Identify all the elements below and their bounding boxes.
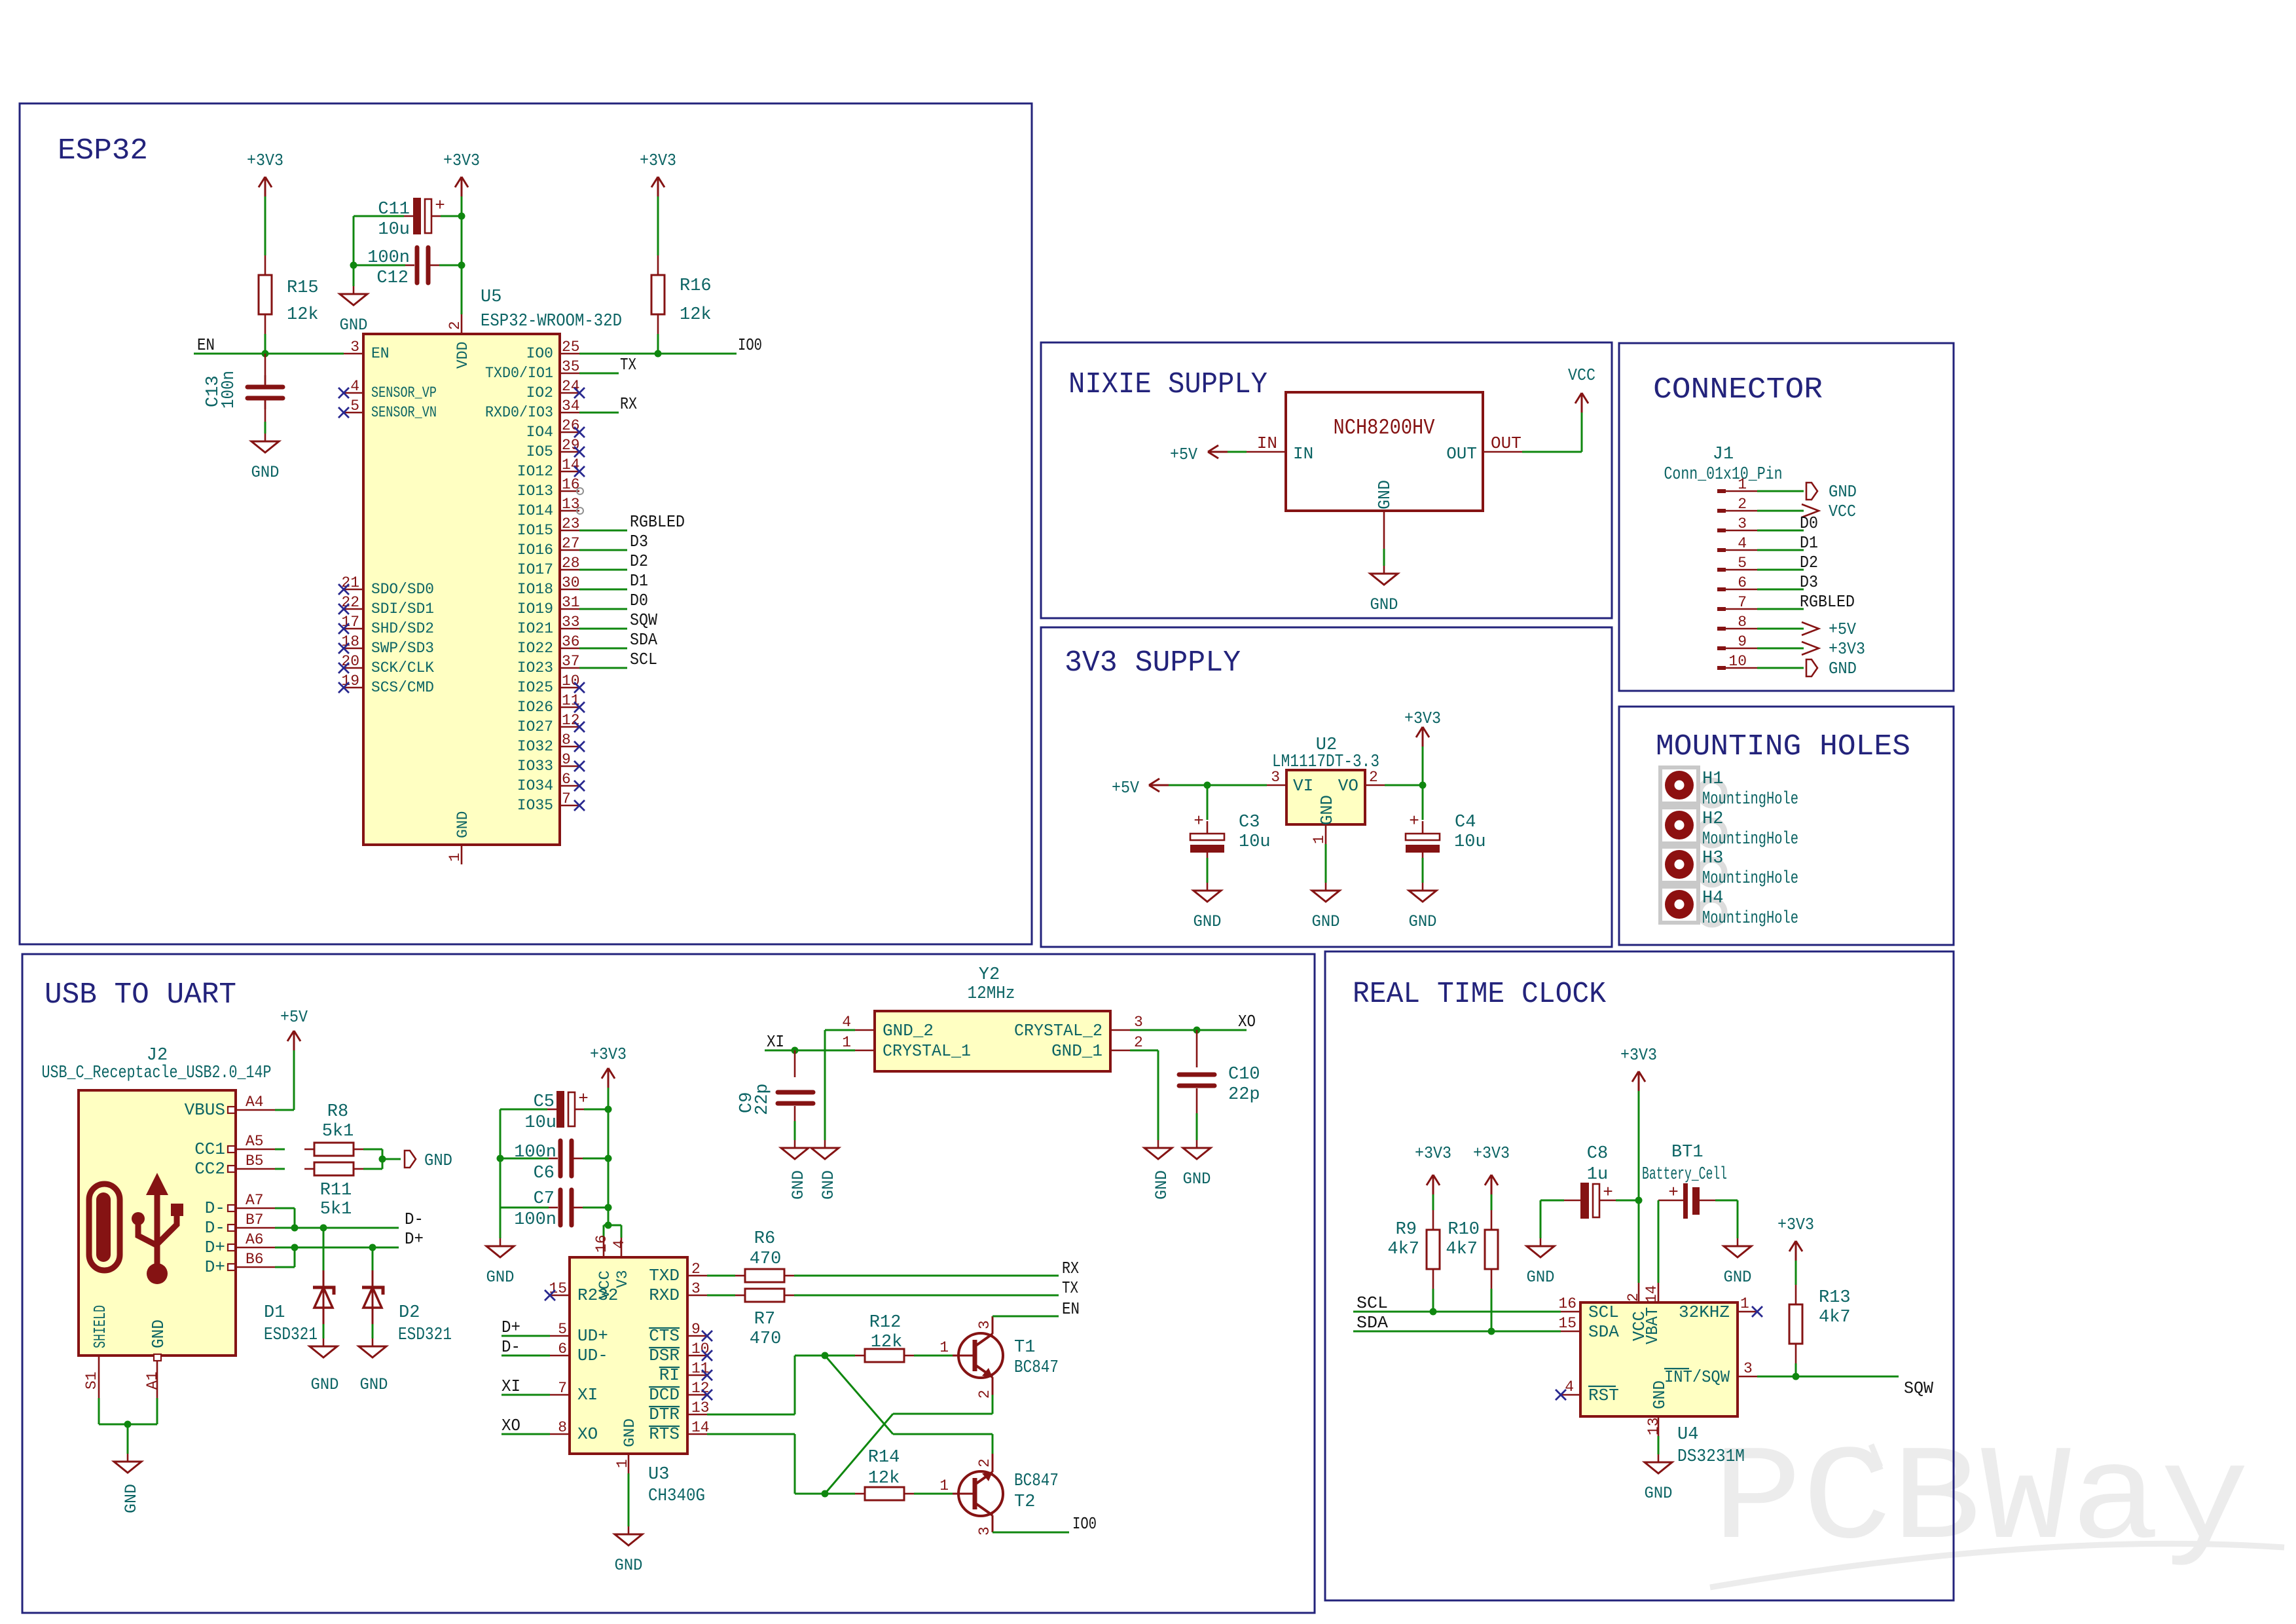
svg-text:5: 5 xyxy=(558,1321,567,1338)
svg-text:9: 9 xyxy=(1738,633,1747,650)
svg-text:CONNECTOR: CONNECTOR xyxy=(1653,373,1823,407)
svg-text:22p: 22p xyxy=(753,1083,773,1115)
svg-text:25: 25 xyxy=(562,339,580,356)
svg-text:31: 31 xyxy=(562,594,580,611)
svg-text:GND: GND xyxy=(1370,595,1398,614)
svg-text:2: 2 xyxy=(976,1458,993,1467)
svg-text:H1: H1 xyxy=(1702,769,1723,789)
svg-text:R9: R9 xyxy=(1396,1220,1417,1240)
svg-text:36: 36 xyxy=(562,633,580,650)
svg-text:SCK/CLK: SCK/CLK xyxy=(371,659,434,676)
svg-text:C7: C7 xyxy=(534,1189,555,1209)
svg-text:C6: C6 xyxy=(534,1164,555,1183)
svg-text:MountingHole: MountingHole xyxy=(1702,830,1798,849)
svg-text:INT/SQW: INT/SQW xyxy=(1664,1367,1730,1387)
svg-text:EN: EN xyxy=(371,345,390,362)
svg-text:T2: T2 xyxy=(1014,1492,1035,1512)
svg-text:+: + xyxy=(1194,811,1204,831)
svg-text:+3V3: +3V3 xyxy=(1404,709,1441,728)
svg-text:IO35: IO35 xyxy=(517,797,553,814)
svg-text:LM1117DT-3.3: LM1117DT-3.3 xyxy=(1272,752,1379,772)
svg-text:R16: R16 xyxy=(680,276,712,296)
svg-text:GND: GND xyxy=(615,1556,643,1575)
svg-text:D0: D0 xyxy=(1800,513,1818,533)
svg-text:VCC: VCC xyxy=(1568,365,1595,385)
svg-text:D-: D- xyxy=(205,1198,225,1218)
svg-text:GND: GND xyxy=(1152,1170,1171,1200)
svg-text:100n: 100n xyxy=(514,1143,556,1162)
svg-text:IO0: IO0 xyxy=(738,335,762,355)
svg-text:2: 2 xyxy=(1369,769,1378,786)
svg-text:DCD: DCD xyxy=(649,1385,680,1405)
svg-text:IO12: IO12 xyxy=(517,463,553,480)
svg-text:ESD321: ESD321 xyxy=(398,1325,452,1345)
svg-text:D-: D- xyxy=(405,1209,424,1229)
svg-text:H2: H2 xyxy=(1702,809,1723,829)
svg-text:10: 10 xyxy=(1728,653,1747,670)
svg-text:VDD: VDD xyxy=(454,342,471,369)
svg-text:XI: XI xyxy=(501,1376,520,1396)
svg-text:+5V: +5V xyxy=(1829,619,1856,639)
svg-text:22p: 22p xyxy=(1228,1085,1260,1105)
svg-text:R11: R11 xyxy=(320,1181,352,1200)
svg-text:IO33: IO33 xyxy=(517,758,553,775)
svg-text:SCL: SCL xyxy=(1588,1302,1619,1322)
svg-text:13: 13 xyxy=(691,1399,710,1416)
svg-text:27: 27 xyxy=(562,535,580,552)
svg-text:6: 6 xyxy=(1738,574,1747,591)
svg-text:RXD0/IO3: RXD0/IO3 xyxy=(485,404,553,421)
svg-text:D+: D+ xyxy=(501,1318,520,1337)
svg-text:3: 3 xyxy=(1271,769,1280,786)
svg-text:ESP32: ESP32 xyxy=(58,134,148,168)
svg-text:D+: D+ xyxy=(405,1229,424,1249)
svg-text:4k7: 4k7 xyxy=(1446,1240,1478,1259)
svg-text:+3V3: +3V3 xyxy=(247,151,283,170)
svg-text:+5V: +5V xyxy=(280,1007,308,1027)
svg-text:+3V3: +3V3 xyxy=(1777,1215,1814,1234)
svg-text:RX: RX xyxy=(620,394,637,414)
svg-text:+3V3: +3V3 xyxy=(1415,1143,1451,1163)
svg-text:VCC: VCC xyxy=(1829,502,1856,521)
svg-text:OUT: OUT xyxy=(1446,444,1477,464)
svg-text:CC1: CC1 xyxy=(194,1139,225,1159)
svg-text:J2: J2 xyxy=(147,1046,168,1065)
svg-text:SHIELD: SHIELD xyxy=(90,1305,110,1348)
svg-text:+: + xyxy=(578,1089,589,1109)
svg-text:UD-: UD- xyxy=(577,1346,608,1365)
svg-text:2: 2 xyxy=(1134,1034,1143,1051)
svg-text:7: 7 xyxy=(1738,594,1747,611)
svg-text:4k7: 4k7 xyxy=(1387,1240,1419,1259)
svg-text:R7: R7 xyxy=(754,1310,775,1329)
svg-text:13: 13 xyxy=(1645,1417,1662,1435)
svg-text:34: 34 xyxy=(562,397,580,415)
svg-text:470: 470 xyxy=(750,1329,782,1349)
svg-text:D1: D1 xyxy=(630,571,648,591)
svg-text:GND: GND xyxy=(1312,912,1340,931)
svg-text:IO16: IO16 xyxy=(517,542,553,559)
svg-text:RI: RI xyxy=(659,1365,680,1385)
svg-text:2: 2 xyxy=(1738,496,1747,513)
svg-text:16: 16 xyxy=(1558,1295,1576,1312)
svg-text:D1: D1 xyxy=(264,1303,285,1323)
svg-text:D3: D3 xyxy=(630,532,648,551)
svg-text:+5V: +5V xyxy=(1112,778,1139,798)
svg-text:24: 24 xyxy=(562,378,580,395)
svg-text:MountingHole: MountingHole xyxy=(1702,909,1798,929)
svg-text:C10: C10 xyxy=(1228,1065,1260,1084)
svg-text:6: 6 xyxy=(558,1340,567,1357)
svg-text:12k: 12k xyxy=(287,305,319,325)
svg-text:MountingHole: MountingHole xyxy=(1702,869,1798,889)
svg-text:D0: D0 xyxy=(630,591,648,610)
svg-text:SQW: SQW xyxy=(630,610,657,630)
svg-text:4k7: 4k7 xyxy=(1819,1308,1851,1327)
svg-text:D2: D2 xyxy=(630,551,648,571)
svg-text:GND: GND xyxy=(621,1418,638,1447)
svg-text:2: 2 xyxy=(446,321,464,330)
svg-text:10u: 10u xyxy=(1454,832,1486,852)
svg-text:CH340G: CH340G xyxy=(648,1486,705,1506)
svg-text:8: 8 xyxy=(1738,614,1747,631)
svg-text:IO25: IO25 xyxy=(517,679,553,696)
svg-text:1: 1 xyxy=(1740,1295,1749,1312)
svg-text:9: 9 xyxy=(691,1321,701,1338)
svg-text:IO4: IO4 xyxy=(526,424,553,441)
svg-text:2: 2 xyxy=(1625,1293,1642,1302)
svg-text:470: 470 xyxy=(750,1249,782,1269)
svg-text:TXD: TXD xyxy=(649,1266,680,1285)
svg-text:D-: D- xyxy=(501,1337,520,1357)
svg-text:SENSOR_VP: SENSOR_VP xyxy=(371,384,437,401)
svg-text:14: 14 xyxy=(562,456,580,473)
svg-text:U5: U5 xyxy=(481,287,501,307)
svg-text:RGBLED: RGBLED xyxy=(630,512,685,532)
svg-text:12k: 12k xyxy=(680,305,712,325)
svg-text:4: 4 xyxy=(350,378,359,395)
svg-text:DTR: DTR xyxy=(649,1405,680,1424)
svg-text:1: 1 xyxy=(1738,476,1747,493)
svg-text:VO: VO xyxy=(1338,776,1358,796)
svg-text:3: 3 xyxy=(976,1320,993,1329)
svg-text:GND: GND xyxy=(149,1319,168,1348)
svg-text:14: 14 xyxy=(1643,1285,1660,1303)
svg-text:2: 2 xyxy=(976,1390,993,1399)
svg-text:3V3 SUPPLY: 3V3 SUPPLY xyxy=(1065,646,1241,680)
svg-text:GND: GND xyxy=(486,1268,515,1287)
svg-text:IO23: IO23 xyxy=(517,659,553,676)
svg-text:IO17: IO17 xyxy=(517,561,553,578)
svg-text:SENSOR_VN: SENSOR_VN xyxy=(371,404,437,421)
svg-text:R6: R6 xyxy=(754,1229,775,1249)
svg-text:XO: XO xyxy=(1238,1012,1256,1031)
svg-text:RST: RST xyxy=(1588,1386,1619,1405)
svg-text:OUT: OUT xyxy=(1491,434,1522,453)
svg-text:GND: GND xyxy=(1375,480,1394,509)
svg-text:12: 12 xyxy=(562,712,580,729)
svg-text:NCH8200HV: NCH8200HV xyxy=(1334,416,1435,440)
svg-text:GND: GND xyxy=(1183,1170,1211,1189)
svg-text:Y2: Y2 xyxy=(979,965,1000,985)
svg-text:3: 3 xyxy=(976,1526,993,1536)
svg-text:GND: GND xyxy=(424,1151,452,1170)
svg-text:4: 4 xyxy=(842,1014,851,1031)
svg-text:+: + xyxy=(1668,1183,1679,1202)
svg-text:EN: EN xyxy=(1062,1299,1080,1319)
svg-text:2: 2 xyxy=(691,1261,701,1278)
svg-text:+3V3: +3V3 xyxy=(640,151,676,170)
svg-text:GND: GND xyxy=(1317,795,1337,825)
svg-text:+3V3: +3V3 xyxy=(590,1044,627,1064)
svg-text:6: 6 xyxy=(562,771,571,788)
svg-text:+3V3: +3V3 xyxy=(1620,1045,1657,1065)
svg-text:10: 10 xyxy=(562,673,580,690)
svg-text:R10: R10 xyxy=(1448,1220,1480,1240)
svg-text:1u: 1u xyxy=(1587,1165,1608,1185)
svg-text:D1: D1 xyxy=(1800,533,1818,553)
svg-text:C11: C11 xyxy=(378,200,410,219)
svg-text:3: 3 xyxy=(1743,1360,1753,1377)
svg-text:1: 1 xyxy=(446,853,464,862)
svg-text:3: 3 xyxy=(691,1280,701,1297)
svg-text:SWP/SD3: SWP/SD3 xyxy=(371,640,434,657)
svg-text:10u: 10u xyxy=(1239,832,1271,852)
svg-text:26: 26 xyxy=(562,417,580,434)
svg-text:100n: 100n xyxy=(367,248,410,268)
svg-text:IO2: IO2 xyxy=(526,384,553,401)
svg-text:4: 4 xyxy=(1738,535,1747,552)
svg-text:100n: 100n xyxy=(514,1210,556,1230)
svg-text:GND: GND xyxy=(1645,1484,1673,1503)
svg-text:R15: R15 xyxy=(287,278,319,298)
svg-text:GND: GND xyxy=(1409,912,1437,931)
svg-text:T1: T1 xyxy=(1014,1338,1035,1357)
svg-text:SDI/SD1: SDI/SD1 xyxy=(371,600,434,618)
svg-text:12k: 12k xyxy=(868,1469,900,1488)
svg-text:+5V: +5V xyxy=(1170,445,1197,464)
svg-text:IO13: IO13 xyxy=(517,483,553,500)
svg-text:ESD321: ESD321 xyxy=(264,1325,318,1345)
svg-text:33: 33 xyxy=(562,614,580,631)
svg-text:USB TO UART: USB TO UART xyxy=(45,978,236,1012)
svg-text:12MHz: 12MHz xyxy=(968,984,1015,1004)
svg-text:IO0: IO0 xyxy=(526,345,553,362)
svg-text:BC847: BC847 xyxy=(1014,1471,1059,1491)
svg-text:B5: B5 xyxy=(246,1153,264,1170)
svg-text:C12: C12 xyxy=(376,268,409,288)
svg-text:IO18: IO18 xyxy=(517,581,553,598)
svg-text:GND_2: GND_2 xyxy=(883,1021,934,1041)
svg-text:U3: U3 xyxy=(648,1465,669,1485)
svg-text:+3V3: +3V3 xyxy=(1829,639,1865,659)
svg-text:GND: GND xyxy=(789,1170,808,1200)
svg-text:16: 16 xyxy=(593,1234,610,1253)
svg-text:+: + xyxy=(1409,811,1419,831)
svg-text:MountingHole: MountingHole xyxy=(1702,790,1798,809)
svg-text:8: 8 xyxy=(562,731,571,748)
svg-text:CRYSTAL_2: CRYSTAL_2 xyxy=(1014,1021,1102,1041)
svg-text:TXD0/IO1: TXD0/IO1 xyxy=(485,365,553,382)
svg-text:XI: XI xyxy=(767,1032,784,1052)
svg-text:C5: C5 xyxy=(534,1092,555,1112)
svg-text:GND: GND xyxy=(454,811,471,838)
svg-text:30: 30 xyxy=(562,574,580,591)
svg-text:TX: TX xyxy=(1062,1278,1078,1298)
svg-text:D2: D2 xyxy=(399,1303,420,1323)
svg-text:5k1: 5k1 xyxy=(322,1122,354,1141)
svg-text:CC2: CC2 xyxy=(194,1159,225,1179)
svg-text:J1: J1 xyxy=(1713,445,1734,464)
svg-text:IN: IN xyxy=(1293,444,1313,464)
svg-text:GND: GND xyxy=(251,463,280,482)
svg-text:SDO/SD0: SDO/SD0 xyxy=(371,581,434,598)
svg-text:35: 35 xyxy=(562,358,580,375)
svg-text:XI: XI xyxy=(577,1385,598,1405)
svg-text:ESP32-WROOM-32D: ESP32-WROOM-32D xyxy=(481,312,622,331)
svg-text:A7: A7 xyxy=(246,1192,264,1209)
svg-text:R13: R13 xyxy=(1819,1288,1851,1308)
svg-text:15: 15 xyxy=(1558,1315,1576,1332)
svg-text:1: 1 xyxy=(939,1477,949,1494)
svg-text:VI: VI xyxy=(1293,776,1313,796)
svg-text:7: 7 xyxy=(558,1380,567,1397)
svg-text:32KHZ: 32KHZ xyxy=(1679,1302,1730,1322)
svg-text:28: 28 xyxy=(562,555,580,572)
svg-text:A4: A4 xyxy=(246,1094,264,1111)
svg-text:5: 5 xyxy=(1738,555,1747,572)
svg-text:GND: GND xyxy=(311,1375,339,1394)
svg-text:IO22: IO22 xyxy=(517,640,553,657)
svg-text:5k1: 5k1 xyxy=(320,1200,352,1219)
svg-text:GND: GND xyxy=(819,1170,838,1200)
svg-text:100n: 100n xyxy=(219,371,239,409)
svg-text:10u: 10u xyxy=(378,220,410,240)
svg-text:DS3231M: DS3231M xyxy=(1677,1447,1745,1467)
svg-text:29: 29 xyxy=(562,437,580,454)
svg-text:UD+: UD+ xyxy=(577,1326,608,1346)
svg-text:H4: H4 xyxy=(1702,889,1723,908)
svg-text:R12: R12 xyxy=(869,1313,902,1333)
svg-text:+: + xyxy=(435,196,445,215)
svg-text:IO0: IO0 xyxy=(1072,1514,1097,1534)
svg-text:3: 3 xyxy=(1134,1014,1143,1031)
svg-text:Conn_01x10_Pin: Conn_01x10_Pin xyxy=(1664,465,1783,485)
svg-text:REAL TIME CLOCK: REAL TIME CLOCK xyxy=(1353,978,1606,1011)
svg-text:C8: C8 xyxy=(1587,1144,1608,1164)
svg-text:SDA: SDA xyxy=(630,630,657,650)
svg-text:A1: A1 xyxy=(144,1371,161,1390)
svg-text:GND: GND xyxy=(1527,1268,1555,1287)
svg-text:+3V3: +3V3 xyxy=(1473,1143,1510,1163)
svg-text:GND: GND xyxy=(1724,1268,1752,1287)
svg-text:23: 23 xyxy=(562,515,580,532)
svg-text:SCL: SCL xyxy=(1357,1293,1388,1313)
svg-text:RGBLED: RGBLED xyxy=(1800,592,1855,612)
svg-text:10u: 10u xyxy=(524,1113,556,1133)
svg-text:VBAT: VBAT xyxy=(1643,1307,1662,1344)
svg-text:D-: D- xyxy=(205,1218,225,1238)
svg-text:IO15: IO15 xyxy=(517,522,553,539)
svg-text:USB_C_Receptacle_USB2.0_14P: USB_C_Receptacle_USB2.0_14P xyxy=(42,1063,272,1083)
svg-text:4: 4 xyxy=(611,1240,628,1249)
svg-text:D+: D+ xyxy=(205,1238,225,1257)
svg-text:1: 1 xyxy=(939,1339,949,1356)
svg-text:+3V3: +3V3 xyxy=(443,151,480,170)
svg-text:GND: GND xyxy=(360,1375,388,1394)
svg-text:B6: B6 xyxy=(246,1251,264,1268)
svg-text:GND: GND xyxy=(1650,1380,1669,1409)
svg-text:SDA: SDA xyxy=(1588,1322,1619,1342)
svg-text:SCS/CMD: SCS/CMD xyxy=(371,679,434,696)
svg-text:MOUNTING HOLES: MOUNTING HOLES xyxy=(1656,730,1910,764)
svg-text:DSR: DSR xyxy=(649,1346,680,1365)
svg-text:IO21: IO21 xyxy=(517,620,553,637)
svg-text:GND: GND xyxy=(122,1484,141,1513)
svg-text:R8: R8 xyxy=(327,1102,348,1122)
svg-text:RTS: RTS xyxy=(649,1424,680,1444)
svg-text:A6: A6 xyxy=(246,1231,264,1248)
svg-text:RX: RX xyxy=(1062,1259,1079,1278)
svg-text:R232: R232 xyxy=(577,1285,618,1305)
svg-text:VBUS: VBUS xyxy=(185,1100,225,1120)
svg-text:XO: XO xyxy=(577,1424,598,1444)
svg-text:EN: EN xyxy=(197,335,215,355)
svg-text:IO34: IO34 xyxy=(517,777,553,794)
svg-text:R14: R14 xyxy=(868,1448,900,1467)
svg-text:NIXIE SUPPLY: NIXIE SUPPLY xyxy=(1068,368,1267,401)
svg-text:SDA: SDA xyxy=(1357,1313,1388,1333)
svg-text:H3: H3 xyxy=(1702,849,1723,868)
svg-text:Battery_Cell: Battery_Cell xyxy=(1642,1165,1727,1185)
svg-text:IO26: IO26 xyxy=(517,699,553,716)
svg-text:1: 1 xyxy=(842,1034,851,1051)
svg-text:A5: A5 xyxy=(246,1133,264,1150)
svg-text:GND: GND xyxy=(1829,482,1857,502)
svg-text:IO14: IO14 xyxy=(517,502,553,519)
svg-text:IO27: IO27 xyxy=(517,718,553,735)
svg-text:IN: IN xyxy=(1257,434,1277,453)
svg-text:CRYSTAL_1: CRYSTAL_1 xyxy=(883,1041,971,1061)
svg-text:+: + xyxy=(1603,1183,1613,1202)
svg-text:D+: D+ xyxy=(205,1257,225,1277)
svg-text:BC847: BC847 xyxy=(1014,1358,1059,1378)
svg-text:CTS: CTS xyxy=(649,1326,680,1346)
svg-text:SCL: SCL xyxy=(630,650,657,669)
svg-text:37: 37 xyxy=(562,653,580,670)
svg-text:S1: S1 xyxy=(83,1371,100,1390)
svg-text:D3: D3 xyxy=(1800,572,1818,592)
svg-text:GND: GND xyxy=(1194,912,1222,931)
svg-text:C3: C3 xyxy=(1239,813,1260,832)
svg-text:SHD/SD2: SHD/SD2 xyxy=(371,620,434,637)
svg-text:SQW: SQW xyxy=(1904,1378,1933,1398)
svg-text:B7: B7 xyxy=(246,1211,264,1228)
svg-text:8: 8 xyxy=(558,1419,567,1436)
svg-text:C4: C4 xyxy=(1455,813,1476,832)
svg-text:IO19: IO19 xyxy=(517,600,553,618)
svg-text:BT1: BT1 xyxy=(1671,1143,1704,1162)
svg-text:IO5: IO5 xyxy=(526,443,553,460)
svg-text:GND: GND xyxy=(1829,659,1857,678)
svg-text:3: 3 xyxy=(1738,515,1747,532)
svg-text:14: 14 xyxy=(691,1419,710,1436)
svg-text:XO: XO xyxy=(501,1416,520,1435)
svg-text:9: 9 xyxy=(562,751,571,768)
svg-text:5: 5 xyxy=(350,397,359,415)
svg-text:GND_1: GND_1 xyxy=(1051,1041,1102,1061)
svg-text:4: 4 xyxy=(1565,1378,1574,1395)
